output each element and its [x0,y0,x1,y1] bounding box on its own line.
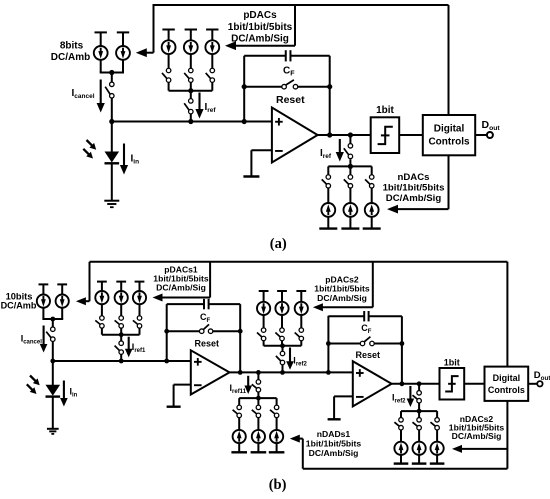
svg-text:Controls: Controls [488,385,525,395]
wire pDAC1-3 stem (b) [139,282,141,292]
wire below P2 (a) [122,59,124,72]
switch S_n (a) [344,144,353,159]
supply bar pDAC1-2 (b) [116,281,126,283]
current source nDAC2 (a) [344,203,358,217]
wire joining pair (a) [100,72,124,74]
current source pDAC2-3 (b) [295,302,308,315]
wire to nDADs1 switch (b) [257,372,259,380]
wire nDACs2-1 to source (b) [400,430,402,442]
wire joining nDACs2 row (b) [401,410,437,412]
ground nDADs1-2 (b) [251,451,267,453]
switch pDAC2-1 (b) [257,328,266,341]
wire: - input down (a) [250,150,252,176]
arrowhead into nDAC sources (a) [387,205,398,214]
node: reset1 row left (b) [164,329,169,334]
node: pair join (b) [50,317,55,322]
wire nDAC1 to ground (a) [327,216,329,228]
svg-text:DC/Amb/Sig: DC/Amb/Sig [452,431,502,441]
current source pDAC2 (a) [184,40,198,54]
wire pDAC2-2 stem (b) [281,291,283,302]
wire: nDACs2 feedback line (b) [462,448,508,450]
svg-text:Reset: Reset [195,338,220,348]
wire: - input (a) [251,149,272,151]
wire: op-amp output (a) [318,134,371,136]
switch nDACs2-1 (b) [394,418,403,430]
switch S_cancel (b) [46,327,55,342]
wire pDAC2-3 stem (b) [300,291,302,302]
switch S_n1 (b) [252,380,261,392]
current source nDADs1-1 (b) [233,430,246,443]
node: reset2 row left (b) [326,341,331,346]
current source nDADs1-2 (b) [252,430,265,443]
wire to Iref1 switch (b) [120,335,122,342]
wire nDACs2-2 to source (b) [418,430,420,442]
current source pDAC2-2 (b) [275,302,288,315]
switch S_n2 (b) [413,391,422,403]
supply bar pDAC2-1 (b) [259,290,269,292]
wire to reset2 switch (b) [328,343,360,345]
node: output/nDAC tap (a) [348,132,353,137]
arrowhead into pDAC1 sources (b) [153,294,163,302]
wire: A2 - input down (b) [333,396,335,419]
node: nDACs2 row join (b) [417,409,422,414]
wire pDAC1 to switch (a) [168,54,170,69]
ground nDADs1-3 (b) [269,451,285,453]
wire: pDACs feedback line (a) [236,45,295,47]
switch pDAC2-2 (b) [275,328,284,341]
supply bar Q1 (b) [39,283,49,285]
current arrow Icancel (b) [40,326,48,353]
current arrow Iref1 (b) [125,337,133,358]
wire pDAC2 to join bar (a) [190,82,192,90]
wire to Dout (b) [528,383,538,385]
supply bar pDAC2 (a) [185,29,197,31]
current source pDAC1 (a) [162,40,176,54]
photodiode D1 (a) [105,152,120,164]
ground nDAC2 (a) [341,227,359,229]
wire reset1 to right rail (b) [213,330,241,332]
wire: into arrowhead (a) [146,52,154,54]
wire: feedback left rail (a) [243,56,245,122]
capacitor CF1 (b) [204,299,209,309]
wire nDAC3 to source (a) [371,188,373,203]
wire nDADs1-1 stem (b) [238,398,240,405]
wire to nDAC switch (a) [349,135,351,144]
wire: A1 - input down (b) [173,385,175,407]
capacitor CF (a) [286,50,291,61]
wire pDAC2 stem (a) [190,30,192,41]
terminal Dout (a) [487,132,493,138]
wire P1 stem (a) [100,32,102,46]
current arrow Icancel (a) [97,80,105,113]
wire nDADs1-2 to source (b) [257,417,259,430]
wire: A2 - input (b) [334,395,353,397]
node: nDAC row join (a) [348,164,353,169]
node: feedback rail tap (a) [242,119,247,124]
wire: feedback right rail (a) [329,56,331,135]
current source nDAC3 (a) [365,203,379,217]
wire: riser to nDADs1 arrow (b) [302,439,304,469]
current source Q2 10bits DAC (b) [56,295,69,308]
wire: pDACs1 box right edge (b) [209,262,211,298]
wire pDAC2-3 to switch (b) [300,315,302,328]
wire pDAC1-2 to switch (b) [120,304,122,316]
wire to Iref2 switch (b) [282,346,284,352]
wire pDAC1-1 to join bar (b) [101,328,103,335]
wire nDADs1-2 stem (b) [257,398,259,405]
wire node to photodiode (b) [52,361,54,385]
wire: summing node to op-amp + (a) [112,121,272,123]
wire: CF to right rail (a) [290,55,330,57]
supply bar P2 (a) [117,31,129,33]
wire pDAC1-3 to join bar (b) [139,328,141,335]
supply bar pDAC3 (a) [206,29,218,31]
wire nDACs2-3 to source (b) [436,430,438,442]
wire nDAC2 to source (a) [349,188,351,203]
wire pDAC1-2 to join bar (b) [120,328,122,335]
switch Reset1 (b) [199,324,212,333]
current source nDACs2-1 (b) [394,442,407,455]
wire below Q2 (b) [61,308,63,320]
ground: op-amp - input (a) [243,175,259,177]
wire: top feedback net (a) [154,4,449,6]
switch pDAC1-2 (b) [115,316,124,328]
svg-text:DC/Amb/Sig: DC/Amb/Sig [231,34,289,45]
svg-text:DC/Amb/Sig: DC/Amb/Sig [386,193,442,204]
supply bar pDAC1 (a) [162,29,174,31]
svg-text:pDACs: pDACs [243,10,277,21]
node: reset row left (a) [242,84,247,89]
wire pDAC1-1 stem (b) [101,282,103,292]
op-amp A1 integrator1 (b) [191,350,230,394]
ground: photodiode (b) [47,429,59,434]
wire pDAC1-2 stem (b) [120,282,122,292]
current arrow Iref input (a) [195,93,203,119]
supply bar pDAC1-1 (b) [97,281,107,283]
wire photodiode to ground (b) [52,396,54,428]
current source pDAC3 (a) [205,40,219,54]
wire to Iref switch (a) [190,91,192,99]
node: input summing node (a) [109,119,114,124]
block Digital Controls (b) [485,367,529,401]
wire reset2 to right rail (b) [374,343,402,345]
wire nDACs2-2 stem (b) [418,411,420,418]
wire: fb2 right rail (b) [401,316,403,384]
wire joining pDAC1 row (b) [102,334,140,336]
svg-text:DC/Amb/Sig: DC/Amb/Sig [317,293,367,303]
arrowhead into nDACs2 sources (b) [452,445,462,453]
node: reset2 row right (b) [400,341,405,346]
wire pDAC1-3 to switch (b) [139,304,141,316]
current arrow Iref2 input (b) [286,348,294,370]
current arrow Iref output (a) [336,139,344,162]
wire nDADs1-2 to ground (b) [257,443,259,452]
switch pDAC1-1 (b) [95,316,104,328]
svg-text:(a): (a) [270,236,287,252]
switch pDAC1 (a) [162,68,171,82]
wire: bottom feedback net (b) [303,468,508,470]
node: Iref join (a) [188,119,193,124]
switch Reset (a) [282,80,298,89]
wire pDAC2-1 to join bar (b) [263,341,265,346]
svg-text:8bits: 8bits [60,40,84,51]
hysteresis glyph (a) [378,127,393,144]
svg-text:Controls: Controls [428,137,470,148]
switch S_ref1 (b) [115,341,124,354]
current source pDAC1-1 (b) [95,291,108,304]
ground: A1 - input (b) [167,406,181,408]
wire node to photodiode (a) [111,122,113,153]
switch S_cancel (a) [105,82,114,98]
ground: A2 - input (b) [328,418,341,420]
wire: Digital Controls to top net (a) [448,5,450,115]
switch nDADs1-3 (b) [270,405,279,418]
arrowhead into nDADs1 sources (b) [290,435,300,443]
wire nDACs2-2 to ground (b) [418,455,420,464]
switch pDAC1-3 (b) [133,316,142,328]
capacitor CF2 (b) [364,311,368,321]
wire: to CF left plate (a) [244,55,286,57]
svg-text:DC/Amb: DC/Amb [1,301,37,311]
wire P2 stem (a) [122,32,124,46]
wire reset to right rail (a) [298,86,330,88]
terminal Dout (b) [537,381,542,386]
wire nDACs2-1 stem (b) [400,411,402,418]
wire below Q1 (b) [42,308,44,320]
wire S_ref2 to line (b) [282,365,284,373]
wire nDADs1-3 stem (b) [276,398,278,405]
wire cancel switch to input node (b) [52,341,54,361]
wire below P1 (a) [100,59,102,72]
svg-text:1bit/1bit/5bits: 1bit/1bit/5bits [383,182,445,193]
wire to reset1 switch (b) [167,330,200,332]
wire nDAC2 to ground (a) [349,216,351,228]
wire 1bit to Digital Controls (a) [399,134,423,136]
wire: to CF2 left plate (b) [328,315,364,317]
wire: to CF1 left plate (b) [167,303,204,305]
wire: pDACs2 box right edge (b) [372,262,374,308]
wire switch to nDAC bar (a) [349,159,351,166]
current source P2 8bits DAC (a) [116,46,130,60]
wire: A2 output (b) [392,383,440,385]
wire into arrowhead (b) [85,300,90,302]
svg-text:1bit: 1bit [376,105,394,116]
light arrows into D1 (a) [83,140,96,159]
wire nDADs1-3 to source (b) [276,417,278,430]
wire joining nDAC row (a) [328,165,371,167]
wire to cancel switch (b) [52,319,54,327]
wire: CF1 to right rail (b) [209,303,241,305]
svg-text:Digital: Digital [493,373,521,383]
comparator box 1bit (a) [371,117,400,153]
wire: summing node to op-amp1 + (b) [53,360,191,362]
svg-text:DC/Amb: DC/Amb [51,52,90,63]
svg-text:DC/Amb/Sig: DC/Amb/Sig [309,448,359,458]
switch pDAC2-3 (b) [295,328,304,341]
supply bar P1 (a) [95,31,107,33]
switch nDADs1-2 (b) [252,405,261,418]
light arrows into D2 (b) [27,376,40,395]
wire: Digital Controls down (b) [506,401,508,469]
switch nDADs1-1 (b) [233,405,242,418]
arrowhead into 10bits DAC pair (b) [76,297,86,305]
ground nDACs2-2 (b) [412,462,427,464]
switch nDACs2-2 (b) [413,418,422,430]
wire pDAC2-2 to join bar (b) [281,341,283,346]
wire pDAC1 stem (a) [168,30,170,41]
current source nDAC1 (a) [321,203,335,217]
wire nDAC3 to ground (a) [371,216,373,228]
wire joining pDAC row (a) [169,90,213,92]
current source nDADs1-3 (b) [270,430,283,443]
wire: drop to 8bit DAC arrow (a) [153,4,155,53]
wire switch to nDADs1 bar (b) [257,392,259,398]
wire nDACs2-3 stem (b) [436,411,438,418]
block Digital Controls (a) [423,115,475,155]
node: nDACs2 tap (b) [417,381,422,386]
current source Q1 10bits DAC (b) [37,295,50,308]
current source nDACs2-2 (b) [413,442,426,455]
current arrow Iref2 output (b) [407,386,415,407]
supply bar pDAC2-2 (b) [277,290,287,292]
wire nDACs2-3 to ground (b) [436,455,438,464]
wire pDAC1 to join bar (a) [168,82,170,90]
node: pDAC2 row join (b) [280,343,285,348]
wire pDAC2-1 stem (b) [263,291,265,302]
wire: Digital Controls to top net (b) [506,262,508,367]
wire Q2 stem (b) [61,284,63,294]
supply bar Q2 (b) [57,283,67,285]
wire pDAC2 to switch (a) [190,54,192,69]
wire: fb1 left rail (b) [166,304,168,361]
switch nDAC2 (a) [344,175,353,188]
current source pDAC1-3 (b) [133,291,146,304]
node: Iref2 join (b) [280,370,285,375]
wire: Digital Controls to nDAC net (a) [448,155,450,209]
hysteresis glyph (b) [445,376,458,391]
switch S_ref (a) [184,99,193,114]
arrowhead into pDAC sources (a) [225,41,236,50]
wire to nDACs2 switch (b) [418,384,420,391]
wire nDADs1-3 to ground (b) [276,443,278,452]
wire joining nDADs1 row (b) [239,397,276,399]
wire pDAC3 to switch (a) [211,54,213,69]
wire nDAC1 stem (a) [327,166,329,175]
switch nDACs2-3 (b) [431,418,440,430]
node: pDAC1 row join (b) [119,332,124,337]
ground nDAC3 (a) [363,227,381,229]
wire pDAC3 to join bar (a) [211,82,213,90]
wire: pDACs1 feedback line (b) [162,297,210,299]
wire pDAC3 stem (a) [211,30,213,41]
current arrow Iref11 (b) [244,376,252,394]
wire pDAC2-1 to switch (b) [263,315,265,328]
op-amp A1 integrator (a) [272,108,318,163]
wire: drop to 10bit DAC arrow (b) [89,262,91,301]
arrowhead into 8bits DAC pair (a) [136,48,147,57]
wire 1bit to Digital Controls (b) [464,383,484,385]
current source pDAC1-2 (b) [115,291,128,304]
wire: pDACs2 feedback line (b) [323,306,373,308]
wire joining pDAC2 row (b) [264,345,302,347]
wire nDADs1-1 to ground (b) [238,443,240,452]
node: reset row right (a) [327,84,332,89]
comparator box 1bit (b) [440,368,465,400]
wire: fb2 left rail (b) [327,316,329,373]
switch S_ref2 (b) [276,351,285,365]
node: nDADs1 row join (b) [256,396,261,401]
ground nDACs2-3 (b) [430,462,445,464]
current source P1 8bits DAC (a) [94,46,108,60]
node: output/feedback (a) [327,132,332,137]
current source pDAC2-1 (b) [257,302,270,315]
switch nDAC3 (a) [365,175,374,188]
wire nDAC1 to source (a) [327,188,329,203]
ground nDACs2-1 (b) [394,462,409,464]
svg-text:Digital: Digital [434,124,465,135]
node: fb2 right join (b) [400,381,405,386]
wire into nDADs1 arrowhead (b) [299,438,303,440]
wire: A1 output to A2 + (b) [230,371,353,373]
current arrow Iin (b) [60,381,68,407]
wire nDAC2 stem (a) [349,166,351,175]
node: fb2 rail tap (b) [326,370,331,375]
wire: nDAC feedback line (a) [398,208,449,210]
wire: A1 - input (b) [174,384,191,386]
supply bar pDAC1-3 (b) [135,281,145,283]
wire: pDACs box right edge (a) [294,4,296,46]
switch pDAC2 (a) [184,68,193,82]
wire cancel switch to input node (a) [111,98,113,122]
wire to reset switch (a) [244,86,282,88]
node: pDAC row join (a) [188,88,193,93]
wire pDAC1-1 to switch (b) [101,304,103,316]
wire joining pair (b) [42,318,63,320]
ground nDADs1-1 (b) [231,451,247,453]
wire S_ref to input node (a) [190,114,192,122]
current source nDACs2-3 (b) [431,442,444,455]
wire nDACs2-1 to ground (b) [400,455,402,464]
switch pDAC3 (a) [206,68,215,82]
svg-text:Reset: Reset [276,94,305,106]
wire pDAC2-3 to join bar (b) [300,341,302,346]
wire: fb1 right rail (b) [239,304,241,372]
node: reset1 row right (b) [238,329,243,334]
wire: CF2 to right rail (b) [369,315,402,317]
wire pDAC2-2 to switch (b) [281,315,283,328]
svg-text:DC/Amb/Sig: DC/Amb/Sig [156,283,206,293]
photodiode D2 (b) [46,385,61,397]
wire switch to nDACs2 bar (b) [418,403,420,411]
op-amp A2 integrator2 (b) [353,361,392,406]
wire photodiode to ground (a) [111,163,113,201]
wire S_ref1 to input node (b) [120,354,122,361]
wire to cancel switch (a) [111,73,113,83]
switch Reset2 (b) [360,337,374,346]
node: pair join (a) [109,70,114,75]
wire Q1 stem (b) [42,284,44,294]
wire nDADs1-1 to source (b) [238,417,240,430]
wire: top feedback net (b) [90,261,508,263]
node: fb1 rail tap (b) [164,359,169,364]
current arrow Iin (a) [120,144,128,175]
node: nDADs1 tap (b) [256,370,261,375]
arrowhead into pDAC2 sources (b) [313,303,323,311]
svg-text:(b): (b) [269,477,287,493]
wire nDAC3 stem (a) [371,166,373,175]
svg-text:1bit/1bit/5bits: 1bit/1bit/5bits [228,22,293,33]
wire to Dout (a) [475,134,486,136]
